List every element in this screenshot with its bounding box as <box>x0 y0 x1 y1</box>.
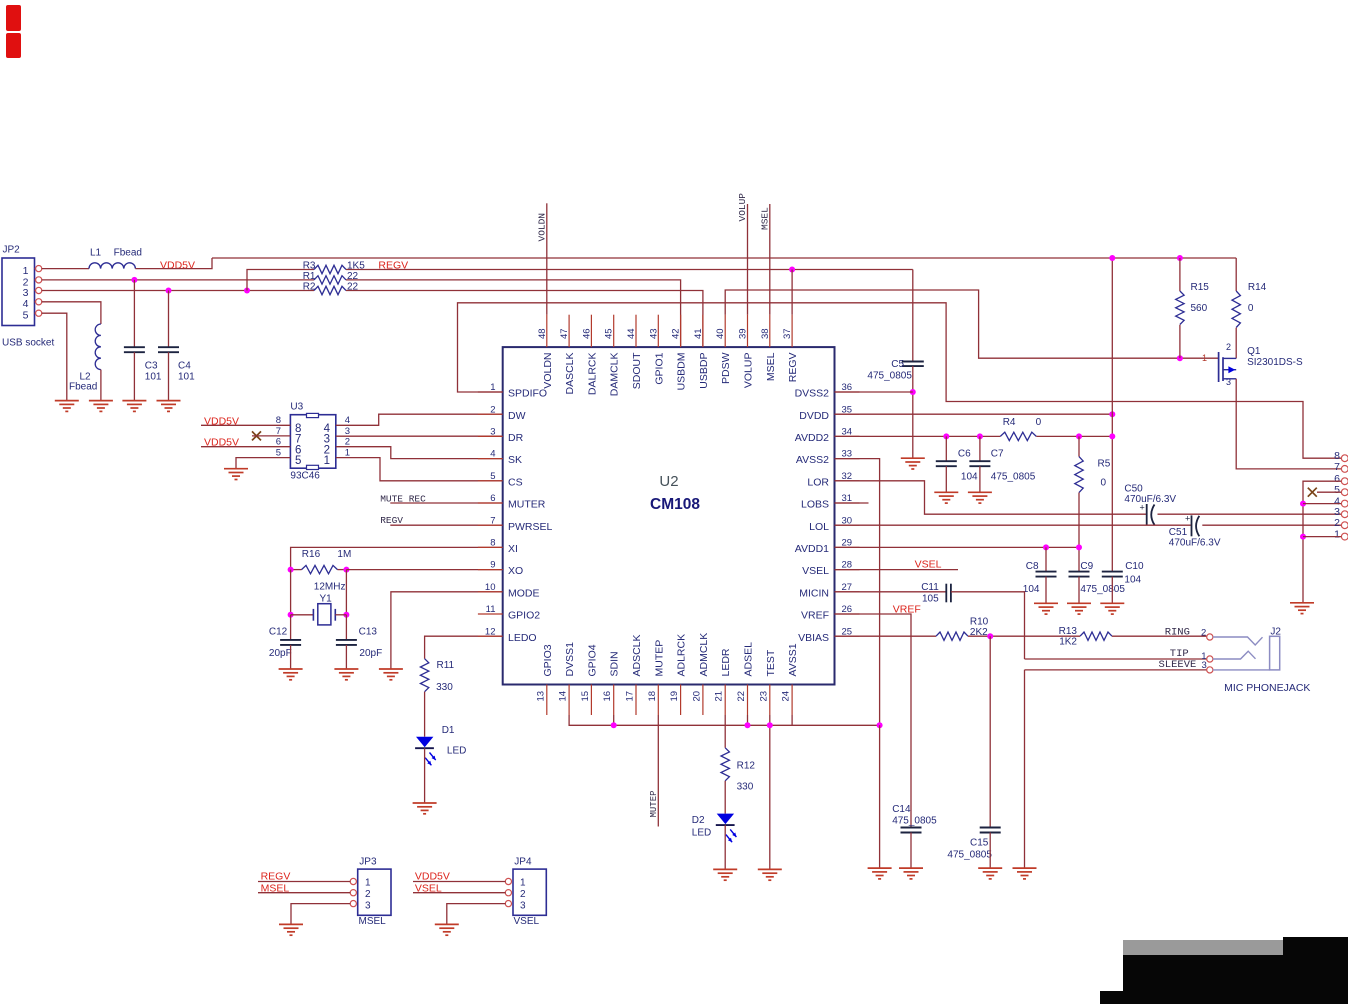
resistor R12 <box>721 748 729 781</box>
wire R15 bottom <box>1179 325 1181 358</box>
svg-text:VSEL: VSEL <box>802 565 829 577</box>
wire U3.5 to ground <box>236 458 290 469</box>
junction DVSS2 <box>910 389 916 395</box>
capacitor C12 <box>280 639 301 641</box>
junction DVDD <box>1109 411 1115 417</box>
svg-text:C6: C6 <box>958 449 971 460</box>
svg-text:C8: C8 <box>1026 561 1039 572</box>
svg-text:XO: XO <box>508 565 523 577</box>
capacitor C4 <box>158 346 179 348</box>
svg-text:3: 3 <box>365 901 371 912</box>
svg-text:12MHz: 12MHz <box>314 582 346 593</box>
svg-text:VSEL: VSEL <box>915 559 942 571</box>
svg-text:D1: D1 <box>442 725 455 736</box>
junction C9 tap <box>1076 544 1082 550</box>
svg-text:48: 48 <box>537 328 548 339</box>
svg-text:GPIO2: GPIO2 <box>508 610 540 622</box>
junction AVSS2 bus <box>877 722 883 728</box>
svg-text:9: 9 <box>490 560 495 571</box>
svg-text:VBIAS: VBIAS <box>798 632 829 644</box>
svg-text:5: 5 <box>295 455 301 467</box>
wire SLEEVE line <box>1024 669 1026 671</box>
svg-text:470uF/6.3V: 470uF/6.3V <box>1169 538 1221 549</box>
svg-text:17: 17 <box>625 691 636 702</box>
svg-text:41: 41 <box>693 328 704 339</box>
svg-text:104: 104 <box>1124 575 1141 586</box>
svg-text:560: 560 <box>1191 303 1208 314</box>
svg-text:22: 22 <box>736 691 747 702</box>
svg-text:U2: U2 <box>659 473 678 490</box>
svg-text:C10: C10 <box>1125 561 1144 572</box>
svg-text:R2: R2 <box>303 281 316 292</box>
ic U3 <box>290 415 335 469</box>
ground C3 <box>122 400 146 402</box>
resistor R1 <box>314 276 346 284</box>
svg-text:15: 15 <box>580 691 591 702</box>
wire VSEL <box>835 569 959 571</box>
svg-text:39: 39 <box>738 328 749 339</box>
svg-text:AVSS1: AVSS1 <box>787 643 799 676</box>
wire D2 ground <box>724 825 726 869</box>
svg-text:24: 24 <box>781 691 792 702</box>
no-connect X header pin5 <box>1308 488 1317 497</box>
svg-text:2: 2 <box>520 889 526 900</box>
svg-text:MSEL: MSEL <box>359 916 387 927</box>
wire header pin6 riser <box>1303 481 1341 603</box>
svg-text:RING: RING <box>1165 627 1190 639</box>
svg-text:19: 19 <box>669 691 680 702</box>
svg-text:REGV: REGV <box>380 515 403 526</box>
svg-text:20pF: 20pF <box>359 648 382 659</box>
svg-text:8: 8 <box>490 538 495 549</box>
capacitor C3 <box>124 346 145 348</box>
svg-text:GPIO4: GPIO4 <box>586 644 598 676</box>
wire C11 to TIP corner <box>951 592 1025 659</box>
wire VDD5V to U3.8 <box>201 424 290 426</box>
svg-text:SDOUT: SDOUT <box>631 352 643 389</box>
ground C14 <box>899 867 923 869</box>
svg-text:1: 1 <box>365 878 371 889</box>
capacitor C9 <box>1069 571 1090 573</box>
svg-text:470uF/6.3V: 470uF/6.3V <box>1124 494 1176 505</box>
svg-text:45: 45 <box>604 328 615 339</box>
wire REGV line <box>346 269 913 271</box>
wire XO <box>346 569 502 571</box>
wire JP4.3 ground <box>447 904 506 925</box>
svg-text:8: 8 <box>276 415 281 426</box>
svg-text:C14: C14 <box>892 804 911 815</box>
ground TEST <box>758 868 782 870</box>
wire C13 ground <box>345 645 347 669</box>
svg-text:R11: R11 <box>437 660 455 671</box>
capacitor C5 <box>902 361 924 363</box>
wire pin24 to bus <box>791 715 793 725</box>
wire header pin4 <box>1303 503 1341 505</box>
svg-text:475_0805: 475_0805 <box>991 472 1036 483</box>
capacitor C8 <box>1036 571 1057 573</box>
svg-text:475_0805: 475_0805 <box>892 816 937 827</box>
svg-text:3: 3 <box>23 287 29 299</box>
svg-text:Y1: Y1 <box>320 594 333 605</box>
wire R1 to USBDM <box>346 280 681 347</box>
wire AVSS2 riser <box>835 459 880 726</box>
svg-text:2: 2 <box>1201 628 1206 639</box>
svg-text:6: 6 <box>276 437 281 448</box>
wire VDD5V vertical to C10 <box>1111 258 1113 572</box>
svg-text:Fbead: Fbead <box>69 381 97 392</box>
svg-text:21: 21 <box>714 691 725 702</box>
junction R3 tap <box>244 288 250 294</box>
red bar 1 (top-left) <box>6 5 21 31</box>
svg-text:Q1: Q1 <box>1247 346 1261 357</box>
ground SLEEVE <box>1013 867 1037 869</box>
junction C15 tap <box>987 633 993 639</box>
svg-text:C11: C11 <box>921 582 939 593</box>
svg-text:DR: DR <box>508 432 524 444</box>
wire REGV JP3 <box>258 881 351 883</box>
wire C13 riser <box>345 615 347 640</box>
capacitor C7 <box>969 460 990 462</box>
svg-text:1K2: 1K2 <box>1059 637 1077 648</box>
svg-text:ADLRCK: ADLRCK <box>676 634 688 677</box>
capacitor C13 <box>336 639 357 641</box>
wire C51 to header pin2 <box>1202 524 1341 526</box>
junction header pin4 <box>1300 501 1306 507</box>
wire DVDD <box>835 413 1113 415</box>
svg-text:R13: R13 <box>1059 626 1078 637</box>
wire VOLDN <box>546 203 548 314</box>
resistor R13 <box>1080 632 1112 640</box>
resistor R4 <box>1000 432 1036 440</box>
wire pin16 to bus <box>613 715 615 725</box>
junction C4 tap <box>166 288 172 294</box>
svg-text:20pF: 20pF <box>269 648 292 659</box>
wire header pin5 stub <box>1317 491 1341 493</box>
svg-text:SI2301DS-S: SI2301DS-S <box>1247 357 1303 368</box>
wire LOBS stub <box>835 502 869 504</box>
svg-text:18: 18 <box>647 691 658 702</box>
svg-text:43: 43 <box>648 328 659 339</box>
wire LOL to C51 <box>835 524 1191 526</box>
wire PWRSEL <box>390 524 502 526</box>
junction R16 left <box>288 567 294 573</box>
svg-text:ADMCLK: ADMCLK <box>698 633 710 677</box>
svg-text:MODE: MODE <box>508 587 540 599</box>
wire JP2.5 ground <box>42 313 67 400</box>
junction R5 top <box>1076 433 1082 439</box>
wire JP2.1 to L1 <box>42 268 90 270</box>
wire R2 to USBDP <box>346 291 703 348</box>
wire AVDD2 <box>835 435 1001 437</box>
svg-text:13: 13 <box>535 691 546 702</box>
svg-text:7: 7 <box>276 426 281 437</box>
junction pin16 bus <box>611 722 617 728</box>
junction REGV pin37 <box>789 267 795 273</box>
wire VREF to C14 <box>835 614 912 828</box>
svg-text:REGV: REGV <box>787 353 799 383</box>
ground header <box>1290 602 1314 604</box>
ground C6 <box>934 491 958 493</box>
wire MSEL JP3 <box>258 892 351 894</box>
svg-text:12: 12 <box>485 626 496 637</box>
wire L2 ground <box>100 370 102 401</box>
svg-text:47: 47 <box>559 328 570 339</box>
svg-text:330: 330 <box>737 782 754 793</box>
svg-text:104: 104 <box>961 472 978 483</box>
svg-text:USB socket: USB socket <box>2 338 54 349</box>
wire LEDR to R12 <box>724 715 726 748</box>
svg-text:44: 44 <box>626 328 637 339</box>
svg-text:3: 3 <box>520 901 526 912</box>
svg-text:330: 330 <box>436 682 453 693</box>
svg-text:MIC PHONEJACK: MIC PHONEJACK <box>1224 682 1310 694</box>
svg-text:3: 3 <box>490 427 495 438</box>
svg-text:LOR: LOR <box>807 476 829 488</box>
resistor R3 <box>314 265 346 273</box>
wire C8 riser <box>1045 547 1047 571</box>
wire C5 to ground <box>912 366 914 458</box>
svg-text:37: 37 <box>782 328 793 339</box>
ground AVSS2 <box>868 867 892 869</box>
no-connect X U3.7 <box>252 431 261 440</box>
svg-text:2: 2 <box>490 404 495 415</box>
svg-text:105: 105 <box>922 594 939 605</box>
inductor L2 <box>95 324 101 370</box>
wire R11 to D1 <box>424 692 426 737</box>
junction C3 tap <box>131 277 137 283</box>
svg-text:C12: C12 <box>269 627 288 638</box>
wire C10 ground <box>1111 577 1113 604</box>
svg-text:23: 23 <box>758 691 769 702</box>
wire MODE to ground <box>391 592 503 669</box>
svg-text:C9: C9 <box>1080 561 1093 572</box>
svg-text:5: 5 <box>1334 484 1340 496</box>
wire VSEL JP4 <box>413 892 506 894</box>
wire C6 riser <box>945 436 947 461</box>
svg-text:CM108: CM108 <box>650 496 700 513</box>
svg-text:LED: LED <box>692 827 711 838</box>
svg-text:R10: R10 <box>970 617 989 628</box>
wire VDD5V to U3.6 <box>201 446 290 448</box>
svg-text:0: 0 <box>1248 303 1254 314</box>
wire TEST to ground <box>769 715 771 869</box>
svg-text:TEST: TEST <box>765 649 777 676</box>
wire MSEL <box>769 204 771 315</box>
svg-text:7: 7 <box>1334 461 1340 473</box>
svg-text:VREF: VREF <box>801 610 829 622</box>
capacitor C6 <box>936 460 957 462</box>
svg-text:C51: C51 <box>1169 527 1188 538</box>
junction AVDD2 vdd tap <box>1109 433 1115 439</box>
wire R10 out <box>968 635 1080 637</box>
svg-text:LED: LED <box>447 746 466 757</box>
junction header pin1 <box>1300 534 1306 540</box>
wire L1 VDD5V riser <box>135 258 212 269</box>
svg-text:SK: SK <box>508 454 522 466</box>
wire R13 to jack ring <box>1112 635 1207 637</box>
wire C7 ground <box>979 466 981 492</box>
svg-text:MICIN: MICIN <box>799 587 829 599</box>
svg-text:2: 2 <box>365 889 371 900</box>
svg-text:ADSEL: ADSEL <box>743 642 755 677</box>
svg-text:DVSS1: DVSS1 <box>564 642 576 677</box>
ground U3.5 <box>224 468 248 470</box>
svg-text:VOLUP: VOLUP <box>743 353 755 389</box>
ground C4 <box>157 400 181 402</box>
ground D2 <box>713 868 737 870</box>
gray strip above band <box>1123 940 1283 955</box>
wire R5 to C9 <box>1078 493 1080 572</box>
svg-text:DAMCLK: DAMCLK <box>609 353 621 397</box>
svg-text:R4: R4 <box>1003 417 1016 428</box>
svg-text:USBDP: USBDP <box>698 353 710 389</box>
svg-text:46: 46 <box>581 328 592 339</box>
svg-text:DALRCK: DALRCK <box>586 353 598 396</box>
wire C3 riser <box>133 280 135 347</box>
svg-text:LEDR: LEDR <box>720 648 732 676</box>
svg-text:C15: C15 <box>970 838 989 849</box>
svg-text:2: 2 <box>345 437 350 448</box>
wire XI <box>291 547 503 569</box>
svg-text:REGV: REGV <box>261 871 291 883</box>
junction R15 bottom <box>1177 355 1183 361</box>
connector JP2 <box>2 258 35 326</box>
svg-text:42: 42 <box>671 328 682 339</box>
svg-text:SDIN: SDIN <box>609 651 621 676</box>
wire C8 ground <box>1045 577 1047 604</box>
svg-text:6: 6 <box>490 493 495 504</box>
svg-text:C3: C3 <box>145 361 158 372</box>
svg-text:0: 0 <box>1036 417 1042 428</box>
ground C12 <box>279 668 303 670</box>
wire PDSW to Q1 gate <box>725 290 1218 358</box>
wire C5 riser <box>912 270 914 362</box>
connector JP3 <box>358 869 391 915</box>
svg-text:5: 5 <box>23 310 29 322</box>
wire VDD5V JP4 <box>413 881 506 883</box>
svg-text:D2: D2 <box>692 815 705 826</box>
wire C15 ground <box>989 833 991 869</box>
svg-text:475_0805: 475_0805 <box>1080 584 1125 595</box>
wire SPDIFO route to header pin8 <box>458 303 1342 458</box>
svg-text:MSEL: MSEL <box>765 352 777 381</box>
junction R15 top <box>1177 255 1183 261</box>
svg-text:MUTEP: MUTEP <box>653 640 665 677</box>
junction C6 tap <box>943 433 949 439</box>
svg-text:101: 101 <box>178 372 195 383</box>
wire LOR to C50 <box>835 481 1147 514</box>
inductor L1 <box>89 263 135 269</box>
junction pin23 bus <box>767 722 773 728</box>
wire JP2.3 D+ to R2 <box>42 290 315 292</box>
svg-text:AVDD1: AVDD1 <box>795 543 829 555</box>
svg-text:10: 10 <box>485 582 496 593</box>
ground C7 <box>968 491 992 493</box>
wire JP3.3 ground <box>291 904 351 925</box>
svg-text:1: 1 <box>345 448 350 459</box>
wire R14 to Q1 drain <box>1235 328 1237 359</box>
wire C9 ground <box>1078 577 1080 604</box>
svg-text:2: 2 <box>1226 342 1231 352</box>
ground C5 <box>901 457 925 459</box>
junction Y1 left <box>288 612 294 618</box>
svg-text:VSEL: VSEL <box>514 916 540 927</box>
svg-text:C4: C4 <box>178 361 191 372</box>
svg-text:16: 16 <box>602 691 613 702</box>
svg-text:7: 7 <box>490 515 495 526</box>
wire MUTER <box>390 502 502 504</box>
svg-text:VOLDN: VOLDN <box>542 353 554 389</box>
wire LEDO <box>425 636 503 659</box>
svg-text:VOLUP: VOLUP <box>737 193 748 222</box>
svg-text:JP3: JP3 <box>359 857 377 868</box>
red bar 2 (top-left) <box>6 33 21 58</box>
svg-text:R12: R12 <box>737 761 756 772</box>
wire VDD5V top bus <box>212 257 1236 259</box>
svg-text:MUTEP: MUTEP <box>649 790 659 817</box>
svg-text:14: 14 <box>558 691 569 702</box>
wire C4 riser <box>168 291 170 348</box>
svg-text:1: 1 <box>520 878 526 889</box>
wire JP2.2 D- to R1 <box>42 279 315 281</box>
svg-text:C50: C50 <box>1124 484 1143 495</box>
svg-text:R15: R15 <box>1191 282 1210 293</box>
svg-text:Fbead: Fbead <box>114 248 142 259</box>
wire C15 riser <box>989 636 991 827</box>
wire C12 riser <box>290 615 292 640</box>
ground JP3 <box>279 923 303 925</box>
junction pin22 bus <box>745 722 751 728</box>
svg-text:AVDD2: AVDD2 <box>795 432 829 444</box>
wire C3 ground <box>133 352 135 400</box>
wire C7 riser <box>979 436 981 461</box>
wire R4 out <box>1036 435 1112 437</box>
ground C8 <box>1034 602 1058 604</box>
wire MUTEP stub <box>657 715 659 827</box>
wire R12 to D2 <box>724 781 726 814</box>
wire U3.2 to SK <box>336 447 503 459</box>
resistor R2 <box>314 286 346 294</box>
svg-text:PWRSEL: PWRSEL <box>508 521 553 533</box>
svg-text:3: 3 <box>345 426 350 437</box>
svg-text:DW: DW <box>508 410 526 422</box>
junction VDD5V bus tap <box>1109 255 1115 261</box>
svg-text:5: 5 <box>276 448 281 459</box>
wire U3.1 to CS <box>336 458 503 481</box>
svg-text:R16: R16 <box>302 549 321 560</box>
svg-text:475_0805: 475_0805 <box>947 850 992 861</box>
svg-text:JP4: JP4 <box>514 857 532 868</box>
svg-text:93C46: 93C46 <box>290 471 320 482</box>
wire U3.4 to DW <box>336 414 503 425</box>
wire VOLUP <box>747 204 749 315</box>
ground D1 <box>413 802 437 804</box>
wire U3.3 to DR <box>336 435 503 437</box>
svg-text:CS: CS <box>508 476 523 488</box>
wire Y1 right riser <box>345 570 347 615</box>
svg-text:MSEL: MSEL <box>760 207 771 230</box>
wire C50 to header pin3 <box>1158 513 1342 515</box>
svg-text:LOBS: LOBS <box>801 499 829 511</box>
svg-text:+: + <box>1140 503 1145 513</box>
svg-text:PDSW: PDSW <box>720 352 732 384</box>
svg-text:40: 40 <box>715 328 726 339</box>
svg-text:R5: R5 <box>1098 459 1111 470</box>
svg-text:104: 104 <box>1023 584 1040 595</box>
svg-text:U3: U3 <box>290 402 303 413</box>
svg-text:+: + <box>1185 514 1190 524</box>
svg-text:GPIO1: GPIO1 <box>653 352 665 384</box>
